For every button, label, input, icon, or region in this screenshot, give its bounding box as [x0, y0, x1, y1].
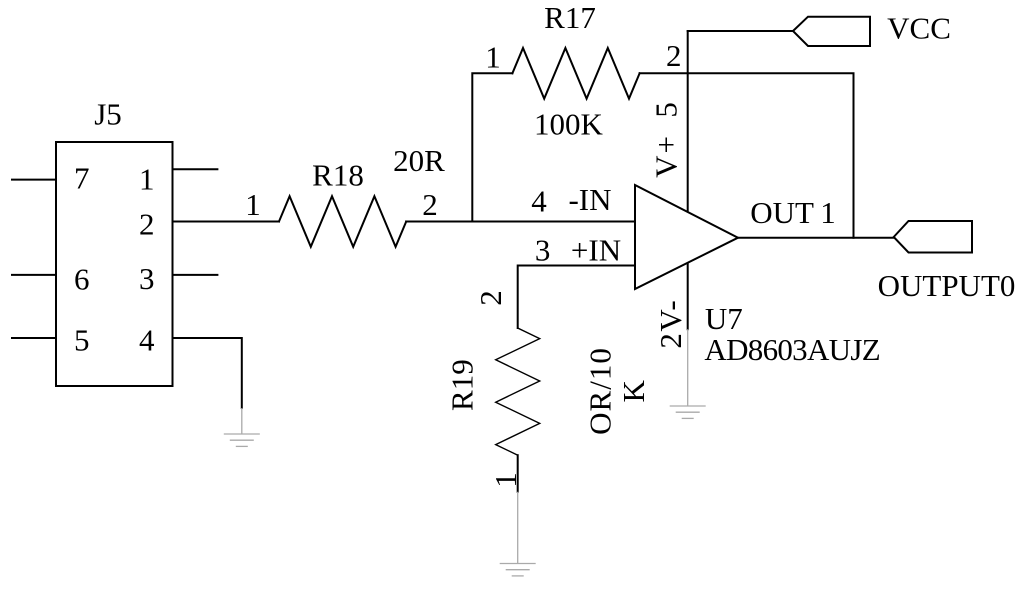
svg-text:2: 2: [139, 207, 155, 242]
svg-text:2V-: 2V-: [653, 299, 688, 349]
wire J5 pin 5 stub: [12, 337, 56, 339]
wire VCC: [688, 30, 793, 32]
svg-text:1: 1: [485, 39, 501, 74]
ground (R19): [500, 564, 536, 576]
svg-text:100K: 100K: [534, 106, 604, 141]
ground (U7 V-): [670, 406, 706, 418]
gray wire R19 ground lead: [517, 492, 519, 564]
svg-text:R17: R17: [544, 0, 596, 35]
wire J5 pin 4 to ground: [173, 338, 242, 408]
wire feedback left vertical: [472, 73, 512, 221]
svg-text:-IN: -IN: [568, 182, 611, 217]
wire R19 pin 1: [517, 455, 519, 492]
resistor R18: [279, 196, 406, 247]
svg-text:4: 4: [139, 322, 155, 357]
wire J5 pin 7 stub: [12, 179, 56, 181]
svg-text:K: K: [616, 379, 651, 402]
svg-text:20R: 20R: [393, 143, 445, 178]
svg-text:OUTPUT0: OUTPUT0: [878, 268, 1016, 303]
svg-text:3: 3: [139, 261, 155, 296]
wire J5 pin 3 stub: [173, 274, 218, 276]
ground (J5 pin 4): [224, 434, 260, 446]
wire J5 pin 6 stub: [12, 274, 56, 276]
svg-text:J5: J5: [94, 97, 122, 132]
wire J5 pin 2 to R18: [173, 221, 280, 223]
connector J5: [56, 142, 173, 386]
resistor R19: [496, 328, 540, 455]
svg-text:5: 5: [74, 322, 90, 357]
svg-text:VCC: VCC: [887, 11, 951, 46]
output port flag OUTPUT0: [894, 221, 972, 253]
svg-text:R18: R18: [312, 158, 364, 193]
wire R18 to -IN: [406, 221, 635, 223]
svg-text:R19: R19: [445, 359, 480, 411]
svg-text:3: 3: [535, 233, 551, 268]
svg-text:1: 1: [139, 162, 155, 197]
svg-text:4: 4: [531, 184, 547, 219]
svg-text:OR/10: OR/10: [583, 347, 618, 435]
svg-text:7: 7: [74, 161, 90, 196]
wire +IN: [518, 266, 635, 329]
svg-text:2: 2: [473, 290, 508, 306]
wire J5 pin 1 stub: [173, 168, 218, 170]
svg-text:OUT 1: OUT 1: [750, 195, 835, 230]
svg-text:+IN: +IN: [571, 233, 621, 268]
op-amp U7: [635, 185, 738, 289]
svg-text:6: 6: [74, 261, 90, 296]
gray wire J5 pin4 ground lead: [241, 408, 243, 434]
wire V+ pin 5 vertical: [687, 31, 689, 215]
resistor R17: [512, 48, 639, 99]
svg-text:V+ 5: V+ 5: [649, 100, 684, 178]
wire R17 to feedback right vertical: [640, 73, 854, 237]
power flag VCC: [793, 17, 870, 46]
svg-text:2: 2: [422, 187, 438, 222]
svg-text:1: 1: [488, 472, 523, 488]
svg-text:1: 1: [245, 187, 261, 222]
wire op-amp output: [738, 237, 894, 239]
gray wire V- ground lead: [687, 329, 689, 406]
wire V- pin 2: [687, 261, 689, 329]
svg-text:AD8603AUJZ: AD8603AUJZ: [704, 332, 880, 367]
svg-text:2: 2: [666, 38, 682, 73]
